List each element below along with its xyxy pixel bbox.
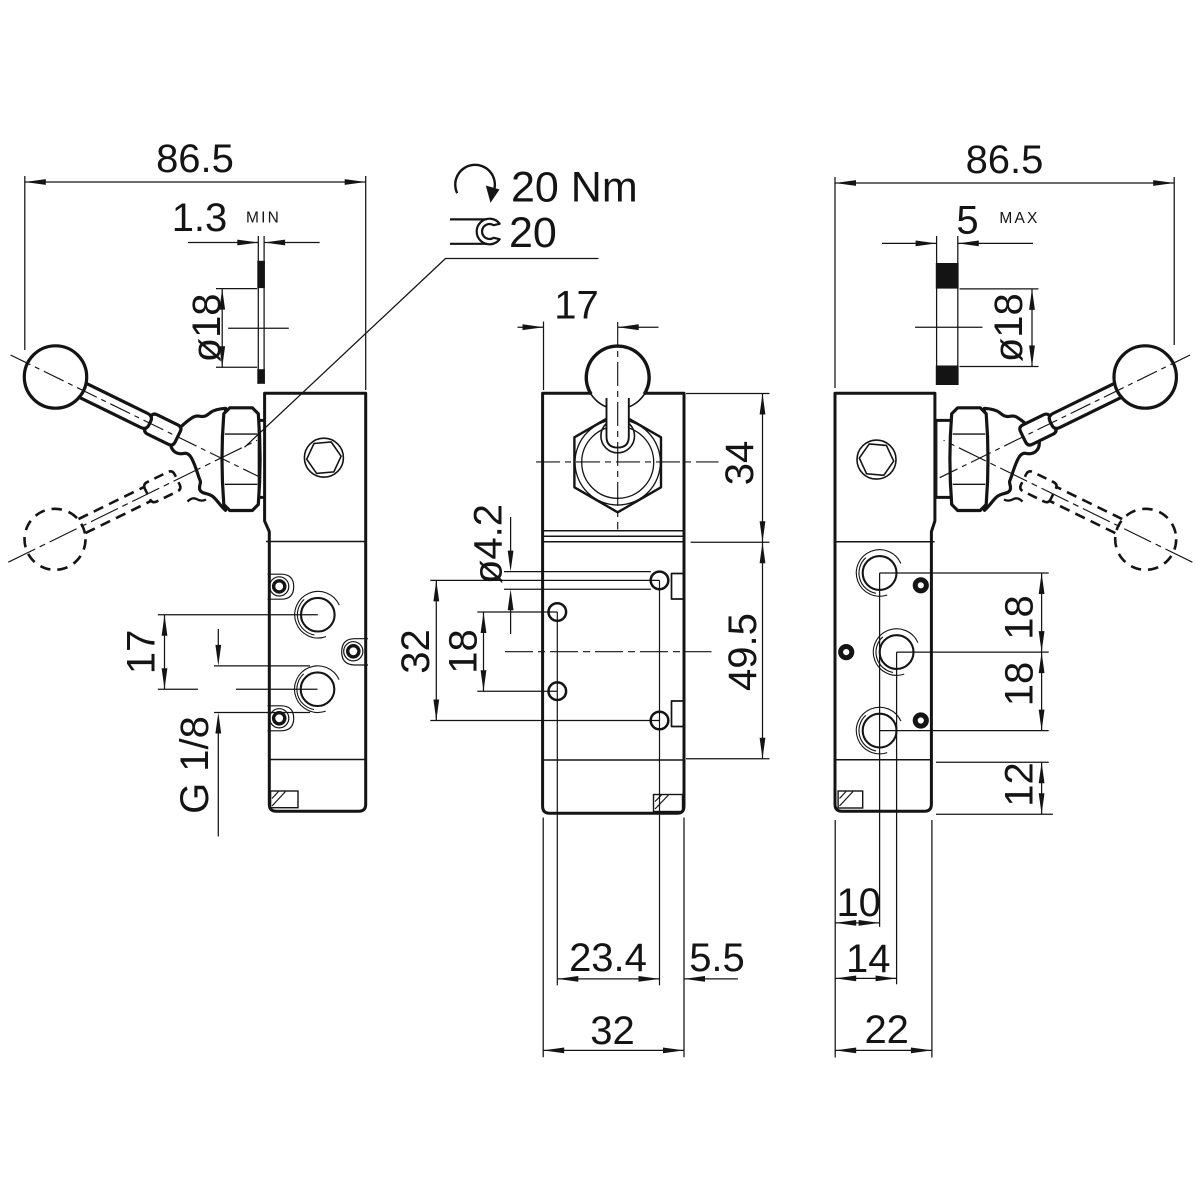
left view: dimension o18 dimension line with arrows bbox=[221, 289, 223, 368]
front view: bell base circle inner bbox=[582, 426, 654, 498]
front view: mounting hole bottom-right bbox=[651, 712, 669, 730]
svg-text:ø18: ø18 bbox=[987, 293, 1031, 362]
front view: dimension 49.5 line with arrows bbox=[762, 542, 764, 758]
left view: panel edge behind nut (washer) bbox=[257, 422, 259, 497]
left view: port 2 thread chamfer arc bbox=[295, 666, 340, 713]
right view: port B thread chamfer arc bbox=[873, 629, 918, 676]
right view: port A/C centre extension (vertical) bbox=[879, 573, 881, 927]
right view: port A counterbore arc bbox=[859, 558, 876, 594]
front view: mounting hole bottom-left bbox=[549, 682, 567, 700]
right view: lever axis centreline (upper) bbox=[940, 355, 1191, 478]
left view: G 1/8 leader lower arrow and line bbox=[215, 713, 221, 734]
front view: dimension 49.5 extension line bottom bbox=[686, 758, 770, 760]
front view: valve body outline bbox=[543, 393, 684, 813]
svg-text:32: 32 bbox=[590, 1009, 635, 1053]
front view: base plate line bbox=[543, 759, 684, 761]
right view: hex socket screw circle bbox=[857, 440, 896, 479]
front view: boot collar circle bbox=[601, 419, 635, 453]
front view: bell base circle outer bbox=[575, 420, 660, 505]
left view: dimension 86.5 arrow left bbox=[25, 179, 46, 185]
front view: dimension 34 line with arrows bbox=[762, 394, 764, 543]
right view: dimension 22 line with arrows bbox=[835, 1049, 932, 1051]
right view: lower extension line (body left) bbox=[834, 820, 836, 1058]
left view: exhaust port top inner ring bbox=[274, 581, 285, 592]
left view: lever locknut (hex, side view) bbox=[222, 408, 260, 511]
right view: dimension o18 dimension line with arrows bbox=[1031, 289, 1033, 367]
left view: panel section fill lower bbox=[257, 369, 265, 384]
right view: port B counterbore arc bbox=[876, 637, 893, 673]
left view: base plate line bbox=[269, 759, 365, 761]
front view: flange split lines bbox=[543, 530, 684, 532]
front view: leader line from wrench to nut bbox=[245, 259, 599, 448]
left view: dimension o18 extension line bottom bbox=[216, 366, 257, 368]
left view: G 1/8 extension line upper bbox=[214, 665, 310, 667]
left view: port 1 bore circle bbox=[301, 598, 335, 632]
left view: exhaust port recess bottom (capsule) bbox=[268, 706, 294, 731]
left view: pilot port right outer ring bbox=[344, 642, 363, 661]
svg-text:49.5: 49.5 bbox=[721, 613, 765, 691]
front view: bottom identification plate bbox=[654, 795, 683, 812]
right view: port A thread chamfer arc bbox=[856, 550, 901, 597]
right view: dimension 5 dimension line with outside arrows bbox=[882, 242, 937, 244]
front view: dimension o4.2 leader arrows bbox=[510, 517, 512, 553]
left view: dimension 86.5 extension line (left, at ball) bbox=[24, 176, 26, 350]
front view: slot centreline left (vertical) bbox=[556, 612, 558, 985]
left view: boot squiggle fragment bbox=[188, 498, 207, 501]
right view: locknut facet lines bbox=[953, 433, 986, 435]
left view: panel section fill upper bbox=[257, 261, 265, 288]
right view: pilot hole top bbox=[915, 580, 926, 591]
right view: base line extension bbox=[936, 761, 1049, 763]
right view: dimension o18 extension lines bbox=[960, 288, 1039, 290]
right view: dimension 86.5 arrow right bbox=[1153, 180, 1174, 186]
front view: hole centre lines left (18) bbox=[477, 611, 557, 613]
left view: lever rod (lower dashed position) bbox=[79, 487, 146, 520]
front view: horizontal centreline (nut) bbox=[536, 461, 719, 463]
right view: identification plate hatching bbox=[840, 792, 847, 799]
front view: dimension 5.5 tail line and arrow bbox=[684, 978, 738, 980]
left view: dimension 1.3 dimension line with outside arrows bbox=[188, 242, 258, 244]
svg-text:20 Nm: 20 Nm bbox=[511, 164, 638, 212]
front view: dimension 32 (bottom) line with arrows bbox=[543, 1049, 684, 1051]
front view: dimension 17 extension line left bbox=[543, 322, 545, 391]
left view: dimension 17 dimension line with arrows bbox=[164, 615, 166, 690]
left view: exhaust port recess top (capsule) bbox=[268, 574, 294, 599]
left view: lever axis centreline (upper) bbox=[11, 355, 262, 478]
left view: valve body outline bbox=[265, 393, 366, 811]
left view: exhaust port bottom inner ring bbox=[274, 713, 285, 724]
front view: o4.2 hole tangent lines bbox=[504, 571, 651, 573]
left view: port 2 bore circle bbox=[301, 672, 335, 706]
left view: pilot port recess right (capsule) bbox=[342, 639, 368, 665]
left view: lever axis centreline (lower) bbox=[8, 440, 257, 562]
right view: port B centre extension line bbox=[897, 651, 1049, 653]
front view: slot centreline right (vertical) bbox=[659, 580, 661, 985]
left view: locknut facet lines bbox=[225, 433, 257, 435]
front view: mounting hole top-right (o4.2) bbox=[651, 572, 669, 590]
right view: lever ball (lower dashed position) bbox=[1115, 509, 1176, 570]
svg-text:MIN: MIN bbox=[246, 210, 281, 227]
left view: dimension 86.5 arrow right bbox=[345, 179, 366, 185]
right view: flange split line bbox=[835, 541, 935, 543]
svg-text:20: 20 bbox=[509, 209, 557, 257]
svg-text:86.5: 86.5 bbox=[156, 137, 234, 181]
right view: dimension 12 line with arrows bbox=[1041, 762, 1043, 814]
front view: horizontal centreline (body) bbox=[505, 651, 712, 653]
svg-text:17: 17 bbox=[119, 630, 163, 675]
front view: vertical centreline bbox=[617, 322, 619, 530]
right view: lever ball (upper position) bbox=[1114, 346, 1176, 408]
right view: bottom edge extension line bbox=[936, 813, 1053, 815]
left view: lever rod collar (upper position) bbox=[145, 414, 181, 445]
left view: port 2 centre line bbox=[236, 688, 318, 690]
left view: hex socket screw circle bbox=[304, 438, 343, 477]
left view: nut-to-body flange jogs bbox=[258, 419, 264, 422]
svg-text:ø18: ø18 bbox=[185, 293, 229, 362]
svg-text:14: 14 bbox=[846, 937, 891, 981]
left view: panel centre tick bbox=[228, 327, 289, 329]
svg-text:10: 10 bbox=[836, 881, 881, 925]
left view: dimension 17 extension line bottom bbox=[158, 688, 198, 690]
right view: port C centre extension line bbox=[880, 730, 1049, 732]
right view: dimension 10 line with arrows bbox=[835, 922, 879, 924]
front view: lever ball top arc (heavy) bbox=[586, 346, 649, 394]
svg-text:17: 17 bbox=[554, 283, 599, 327]
left view: hex socket hexagon bbox=[307, 442, 341, 473]
right view: lever axis centreline (lower) bbox=[944, 440, 1193, 562]
svg-text:12: 12 bbox=[997, 762, 1041, 807]
right view: port B bore circle bbox=[880, 635, 914, 669]
left view: exhaust port bottom outer ring bbox=[270, 709, 289, 728]
left view: dimension o18 extension line top bbox=[216, 288, 257, 290]
right view: hex socket hexagon bbox=[859, 444, 893, 475]
right view: port B centre extension (vertical) bbox=[896, 652, 898, 984]
right view: port C bore circle bbox=[863, 714, 897, 748]
svg-text:5: 5 bbox=[956, 198, 978, 242]
front view: side tab top bbox=[672, 574, 685, 600]
front view: dimension 17 line with outside arrows bbox=[518, 326, 544, 328]
front view: locknut hexagon bbox=[574, 412, 661, 512]
right view: lever mounting bell bbox=[985, 408, 1040, 510]
right view: dimension 86.5 arrow left bbox=[835, 180, 856, 186]
left view: lever rod (upper position) bbox=[72, 381, 152, 429]
front view: identification plate hatching bbox=[655, 795, 662, 802]
left view: dimension 86.5 extension line (right, at body edge) bbox=[365, 176, 367, 390]
right view: lever locknut (hex, side view) bbox=[950, 408, 988, 511]
left view: dimension 86.5 dimension line bbox=[25, 181, 366, 183]
right view: port C thread chamfer arc bbox=[856, 707, 901, 754]
right view: panel centre tick bbox=[915, 326, 983, 328]
front view: side tab bottom bbox=[672, 701, 685, 727]
right view: pilot hole left bbox=[841, 647, 852, 658]
svg-text:18: 18 bbox=[997, 595, 1041, 640]
left view: lever mounting bell bbox=[171, 408, 226, 510]
front view: mounting hole top-left bbox=[549, 603, 567, 621]
left view: lever ball (upper position) bbox=[24, 346, 86, 408]
right view: dimension 86.5 dimension line bbox=[835, 182, 1174, 184]
right view: base plate line bbox=[835, 759, 931, 761]
front view: lower extension line (body right) bbox=[683, 818, 685, 1058]
left view: port 1 thread chamfer arc bbox=[295, 591, 340, 638]
svg-text:32: 32 bbox=[394, 629, 438, 674]
right view: lower extension line (body right) bbox=[931, 820, 933, 1058]
svg-text:5.5: 5.5 bbox=[689, 936, 745, 980]
left view: port 1 counterbore arc bbox=[297, 599, 314, 635]
right view: dimension 18 (upper) line with arrows bbox=[1041, 573, 1043, 652]
right view: dimension 14 line with arrows bbox=[835, 977, 896, 979]
front view: dimension 32 line with arrows bbox=[435, 580, 437, 720]
svg-text:22: 22 bbox=[864, 1008, 909, 1052]
left view: G 1/8 extension line lower bbox=[214, 712, 310, 714]
svg-text:ø4.2: ø4.2 bbox=[466, 504, 510, 584]
front view: dimension 34/49.5 shared extension line bbox=[691, 541, 770, 543]
svg-text:86.5: 86.5 bbox=[966, 138, 1044, 182]
left view: lever rod collar (lower dashed position) bbox=[144, 471, 180, 502]
right view: bottom identification plate bbox=[838, 791, 863, 808]
svg-text:G 1/8: G 1/8 bbox=[173, 716, 217, 814]
right view: lever rod (lower dashed position) bbox=[1049, 501, 1115, 533]
svg-text:23.4: 23.4 bbox=[569, 936, 647, 980]
right view: dimension 18 (lower) line with arrows bbox=[1041, 652, 1043, 731]
front view: dimension 18 line with arrows bbox=[483, 612, 485, 691]
left view: dimension 17 extension line top (port 1 centre) bbox=[158, 614, 318, 616]
right view: mounting panel edges (5 max thick) bbox=[936, 236, 938, 385]
front view: lever stem bbox=[607, 398, 629, 448]
front view: lower extension line (body left) bbox=[542, 818, 544, 1058]
front view: dimension 23.4 line with arrows bbox=[557, 978, 659, 980]
svg-text:34: 34 bbox=[718, 441, 762, 486]
front view: dimension 34 extension line top bbox=[686, 393, 770, 395]
left view: lever ball (lower dashed position) bbox=[25, 509, 86, 570]
svg-text:18: 18 bbox=[997, 662, 1041, 707]
right view: lever rod (upper position) bbox=[1049, 381, 1129, 429]
front view: torque icon arrowhead bbox=[486, 186, 500, 203]
right view: pilot hole bottom bbox=[915, 715, 926, 726]
right view: panel section fill upper bbox=[936, 263, 959, 289]
right view: panel section fill lower bbox=[936, 366, 959, 386]
left view: pilot port right inner ring bbox=[348, 646, 359, 657]
right view: dimension 86.5 extension line (right, at ball) bbox=[1173, 177, 1175, 345]
right view: port A centre extension line bbox=[880, 572, 1049, 574]
left view: bottom identification plate bbox=[271, 791, 298, 808]
front view: torque icon arc bbox=[455, 165, 495, 193]
right view: port C counterbore arc bbox=[859, 715, 876, 751]
svg-text:MAX: MAX bbox=[999, 210, 1039, 227]
left view: flange split line bbox=[266, 541, 366, 543]
right view: valve body outline bbox=[835, 393, 935, 811]
front view: wrench icon bbox=[477, 219, 500, 245]
svg-text:18: 18 bbox=[441, 629, 485, 674]
right view: lever rod collar (lower dashed position) bbox=[1020, 471, 1056, 502]
right view: boot squiggle fragment bbox=[1004, 498, 1023, 501]
right view: nut-to-body flange jogs bbox=[935, 419, 952, 422]
front view: hole row centre line top (32) bbox=[430, 579, 659, 581]
right view: panel edge behind nut bbox=[936, 422, 938, 498]
right view: lever rod collar (upper position) bbox=[1020, 414, 1056, 445]
front view: lever ball bbox=[586, 346, 649, 409]
front view: hole row centre line bottom (32) bbox=[430, 720, 659, 722]
left view: G 1/8 leader upper arrow bbox=[217, 629, 219, 648]
left view: port 2 counterbore arc bbox=[297, 674, 314, 710]
svg-text:1.3: 1.3 bbox=[172, 196, 228, 240]
right view: dimension 86.5 extension line (left, at body edge) bbox=[834, 177, 836, 388]
left view: identification plate hatching bbox=[272, 792, 279, 799]
right view: port A bore circle bbox=[863, 556, 897, 590]
left view: exhaust port top outer ring bbox=[270, 577, 289, 596]
left view: mounting panel edges (1.3 min thick) bbox=[257, 236, 259, 384]
